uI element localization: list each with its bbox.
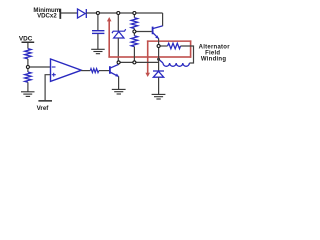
wire R upper to mid node bbox=[133, 29, 135, 31]
svg-text:VDCx2: VDCx2 bbox=[37, 13, 57, 20]
wire mid node to Q2 base bbox=[136, 31, 152, 33]
wire terminal to D1 bbox=[61, 12, 78, 14]
node rail Q1 collector bbox=[117, 61, 120, 64]
node chain mid bbox=[133, 30, 136, 33]
node top rail 1 bbox=[96, 12, 99, 15]
wire R to ground bbox=[27, 82, 29, 91]
diode D1 bbox=[78, 9, 87, 18]
wire D2 to ground bbox=[158, 77, 160, 94]
lower black rail bbox=[119, 61, 159, 63]
flyback diode D2 bbox=[153, 71, 164, 77]
red box top edge bbox=[147, 40, 191, 42]
ground below D2 bbox=[152, 94, 166, 99]
wire rail corner down to Q2 collector bbox=[162, 13, 164, 26]
wire Q2 emitter to node bbox=[158, 38, 160, 44]
red box left edge with down arrow bbox=[145, 40, 150, 77]
node top rail 2 bbox=[117, 12, 120, 15]
wire mid node down bbox=[133, 33, 135, 36]
wire R to divider node bbox=[27, 59, 29, 66]
resistor R lower (chain) bbox=[131, 36, 137, 47]
ground below divider bbox=[21, 92, 35, 97]
svg-text:VDC: VDC bbox=[19, 35, 33, 42]
node Q2 emitter bbox=[157, 45, 160, 48]
input terminal bar bbox=[59, 9, 61, 19]
inductor field winding bbox=[159, 59, 190, 66]
Q1 emitter arrowhead bbox=[115, 74, 119, 77]
resistor R divider top bbox=[25, 49, 31, 59]
wire R3 to Q1 base bbox=[99, 70, 109, 72]
wire divider node down bbox=[27, 69, 29, 72]
wire op-amp output bbox=[81, 70, 90, 72]
wire op-amp plus input to Vref bbox=[45, 75, 50, 100]
red path horizontal rail bbox=[108, 56, 191, 58]
label Minimum VDCx2 bbox=[33, 7, 60, 20]
resistor chain upper R from rail bbox=[133, 13, 135, 18]
wire VDC terminal to R bbox=[27, 43, 29, 49]
svg-text:Vref: Vref bbox=[37, 105, 50, 112]
label Alternator Field Winding bbox=[199, 45, 231, 63]
transistor Q2 bbox=[153, 26, 163, 39]
wire resistor to right corner bbox=[181, 46, 194, 63]
transistor Q1 bbox=[110, 64, 119, 76]
wire Q1 collector to rail node bbox=[118, 62, 120, 64]
wire zener to lower rail bbox=[117, 38, 119, 61]
op-amp U1 bbox=[51, 59, 82, 81]
Vref terminal bar bbox=[38, 100, 52, 102]
junction dot winding tap bbox=[157, 58, 160, 61]
resistor R upper (chain) bbox=[131, 18, 137, 29]
wire capacitor to ground bbox=[97, 34, 99, 49]
svg-text:Winding: Winding bbox=[201, 56, 226, 62]
wire capacitor stem upper bbox=[97, 13, 99, 30]
node rail chain bottom bbox=[133, 61, 136, 64]
wire D1 to rail corner bbox=[86, 12, 162, 14]
wire divider node to op-amp inverting input bbox=[30, 66, 51, 68]
wire R lower to bottom rail bbox=[133, 47, 135, 61]
resistor R3 op-amp output bbox=[90, 69, 99, 73]
ground below Q1 bbox=[112, 89, 126, 94]
resistor R divider bottom bbox=[25, 72, 31, 82]
red box right edge bbox=[190, 40, 192, 57]
ground below C1 bbox=[91, 49, 105, 53]
capacitor C1 bbox=[92, 31, 104, 34]
node top rail 3 bbox=[133, 12, 136, 15]
wire Q1 emitter to ground bbox=[118, 76, 120, 89]
resistor R field (horizontal) bbox=[168, 43, 181, 48]
wire node down through rail to diode bbox=[158, 48, 160, 71]
Q2 emitter arrowhead bbox=[155, 35, 159, 38]
node divider bbox=[26, 66, 29, 69]
red current arrow up bbox=[107, 17, 112, 58]
VDC terminal bar bbox=[22, 42, 35, 44]
zener Z1 bbox=[112, 29, 126, 38]
wire zener stem upper bbox=[117, 13, 119, 31]
wire node to winding resistor bbox=[160, 45, 168, 47]
